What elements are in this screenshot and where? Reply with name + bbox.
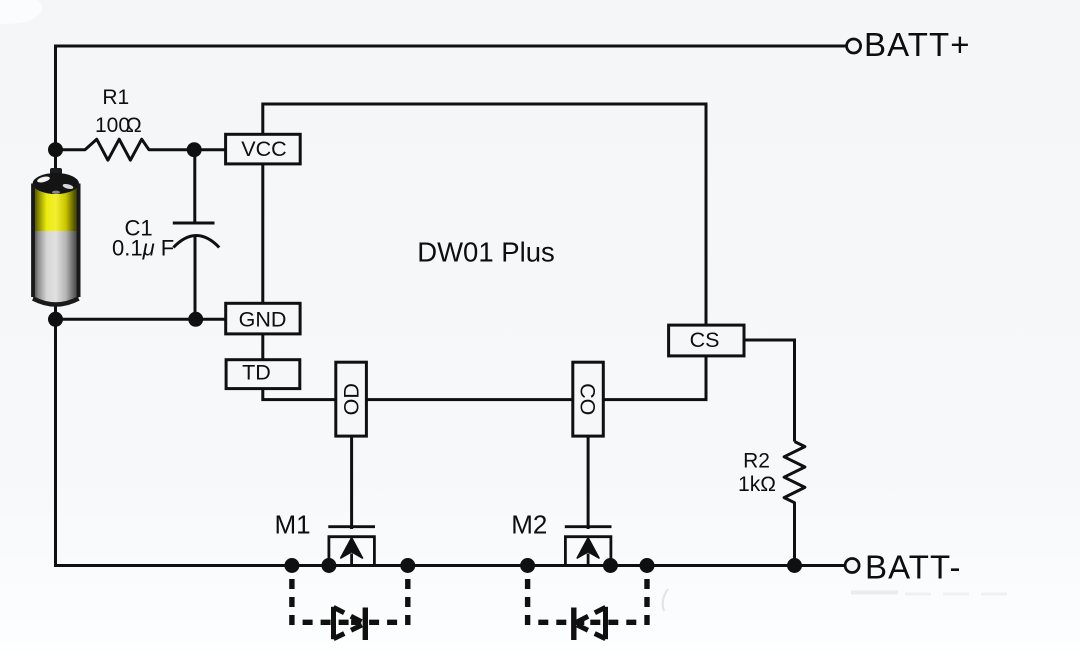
- capacitor C1 flat plate: [173, 222, 215, 225]
- svg-text:R1: R1: [102, 86, 129, 109]
- capacitor C1 top wire: [193, 150, 196, 223]
- body diode D1 cathode bar: [363, 608, 368, 641]
- node R1 / C1 / VCC: [187, 142, 202, 157]
- pin box CS: [669, 325, 744, 356]
- node M1 source: [321, 558, 336, 573]
- svg-text:GND: GND: [239, 308, 287, 332]
- node R2 bottom on BATT- rail: [787, 558, 802, 573]
- svg-text:R2: R2: [743, 450, 770, 473]
- pin box OD: [336, 362, 367, 436]
- svg-text:CS: CS: [690, 328, 720, 352]
- capacitor C1 bottom wire: [194, 237, 197, 320]
- transistor M1 gate plate: [328, 525, 375, 528]
- svg-text:OD: OD: [340, 383, 364, 415]
- terminal BATT-: [845, 559, 859, 573]
- node D1 left on BATT- rail: [284, 558, 299, 573]
- svg-text:M2: M2: [511, 509, 547, 539]
- IC DW01 Plus outline: [263, 104, 706, 400]
- svg-text:100Ω: 100Ω: [95, 114, 142, 137]
- wire: outer loop BATT+ rail, left wire, BATT- rail: [56, 46, 847, 566]
- terminal BATT+: [847, 39, 861, 53]
- node M2 source: [603, 558, 618, 573]
- battery cell: [33, 168, 79, 305]
- transistor M2 arrow shaft: [587, 554, 590, 566]
- svg-text:TD: TD: [242, 361, 271, 385]
- svg-text:BATT-: BATT-: [865, 549, 962, 586]
- svg-text:M1: M1: [274, 509, 310, 539]
- transistor M2 gate plate: [565, 525, 612, 528]
- faint watermark remnants: [851, 591, 898, 595]
- capacitor C1 curved plate: [173, 236, 219, 248]
- wire + resistor R1 (zigzag): [56, 139, 226, 160]
- transistor M1 gate wire: [350, 436, 353, 529]
- transistor M1 channel: [329, 537, 375, 566]
- svg-text:1kΩ: 1kΩ: [738, 473, 776, 496]
- resistor R2 (zigzag): [784, 442, 805, 566]
- pin box GND: [226, 303, 300, 334]
- transistor M2 channel: [565, 537, 611, 566]
- node C1 bottom: [188, 312, 203, 327]
- body diode D2 triangle: [575, 607, 606, 639]
- svg-text:CO: CO: [575, 383, 599, 415]
- pin box VCC: [226, 134, 301, 164]
- transistor M1 arrow: [341, 538, 363, 558]
- wire CS to R2: [744, 340, 795, 442]
- node D1 right on BATT- rail: [400, 558, 415, 573]
- transistor M1 arrow shaft: [350, 554, 353, 566]
- body diode D2 cathode bar: [571, 608, 576, 641]
- body diode D1 dashed loop: [292, 568, 349, 622]
- transistor M2 arrow: [577, 538, 599, 558]
- pin box OC: [573, 362, 604, 436]
- wire GND to battery: [56, 318, 226, 321]
- body diode D2 dashed loop: [528, 568, 587, 622]
- svg-text:DW01 Plus: DW01 Plus: [417, 237, 555, 268]
- node D2 left on BATT- rail: [520, 558, 535, 573]
- transistor M2 gate wire: [587, 436, 590, 529]
- node battery- / GND wire: [48, 312, 63, 327]
- svg-text:0.1μ F: 0.1μ F: [112, 236, 174, 261]
- pin box TD: [226, 360, 300, 389]
- svg-text:VCC: VCC: [241, 137, 286, 161]
- svg-text:BATT+: BATT+: [864, 26, 971, 63]
- node battery+ / R1: [48, 142, 63, 157]
- body diode D1 triangle: [334, 607, 365, 639]
- node D2 right on BATT- rail: [640, 558, 655, 573]
